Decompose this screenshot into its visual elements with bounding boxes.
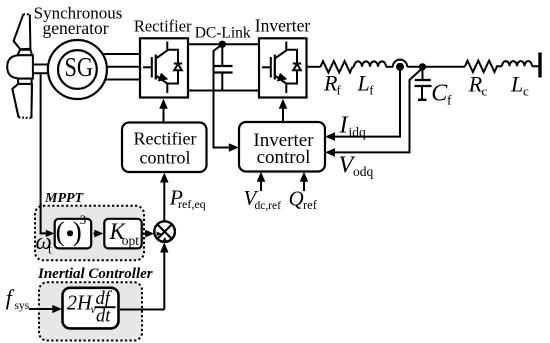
svg-text:f: f (369, 83, 374, 98)
svg-text:t: t (48, 242, 52, 257)
svg-text:idq: idq (349, 125, 367, 140)
svg-text:Rectifier: Rectifier (134, 17, 192, 36)
svg-text:dt: dt (96, 307, 111, 327)
svg-text:C: C (431, 80, 448, 106)
svg-text:(: ( (56, 216, 65, 246)
svg-text:dc,ref: dc,ref (255, 200, 282, 212)
svg-text:odq: odq (353, 164, 374, 179)
svg-text:sys: sys (15, 300, 30, 312)
svg-text:Rectifier: Rectifier (134, 129, 197, 149)
svg-text:Inverter: Inverter (255, 15, 311, 35)
svg-text:f: f (337, 83, 342, 98)
svg-text:opt: opt (122, 233, 140, 248)
svg-text:DC-Link: DC-Link (195, 24, 251, 41)
svg-text:ref,eq: ref,eq (178, 197, 206, 211)
svg-text:control: control (257, 147, 311, 168)
svg-text:Inertial Controller: Inertial Controller (37, 266, 153, 282)
svg-text:SG: SG (64, 52, 93, 82)
svg-text:L: L (357, 71, 370, 96)
svg-text:I: I (339, 113, 349, 139)
svg-text:L: L (510, 72, 523, 97)
svg-text:R: R (468, 72, 483, 97)
svg-text:Q: Q (289, 186, 304, 210)
svg-text:MPPT: MPPT (44, 191, 85, 206)
svg-text:ref: ref (303, 198, 318, 212)
svg-text:control: control (140, 148, 191, 168)
svg-text:generator: generator (42, 18, 108, 38)
svg-text:c: c (523, 83, 529, 98)
svg-text:c: c (482, 83, 488, 98)
svg-text:3: 3 (80, 212, 87, 227)
svg-text:f: f (447, 93, 452, 108)
